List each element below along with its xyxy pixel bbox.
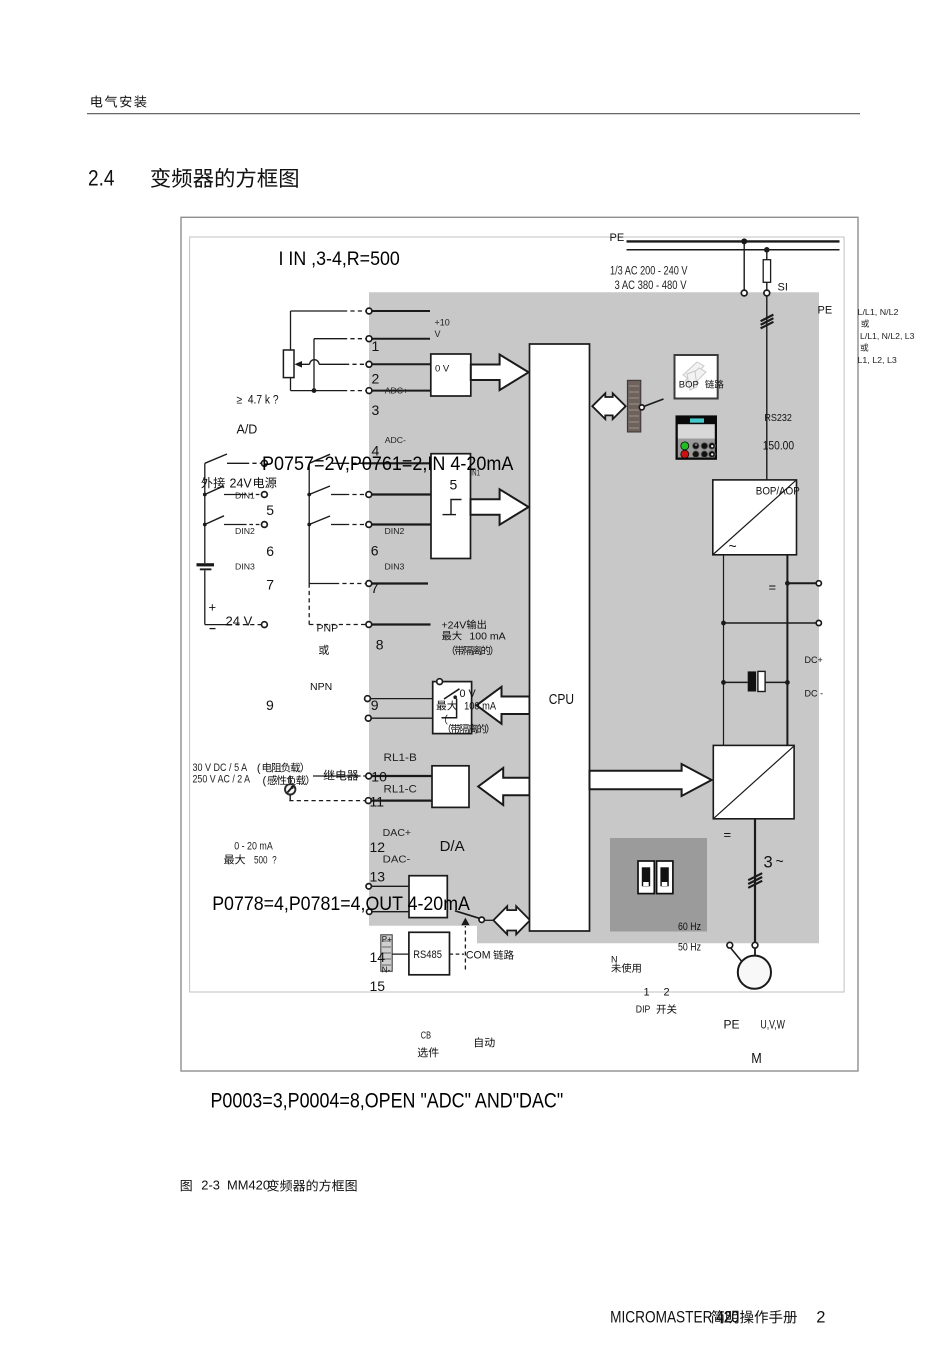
svg-text:SI: SI xyxy=(778,282,788,294)
wire terminal 13 to DAC block xyxy=(372,911,409,913)
text or xyxy=(861,320,869,328)
svg-text:3: 3 xyxy=(372,402,380,418)
svg-text:DIN3: DIN3 xyxy=(385,561,405,571)
svg-text:9: 9 xyxy=(371,697,379,713)
schmitt trigger symbol in DIN block xyxy=(443,514,457,516)
svg-text:CB: CB xyxy=(421,1030,431,1042)
DIP switch 2 xyxy=(657,861,673,894)
svg-text:D/A: D/A xyxy=(440,838,465,855)
svg-text:=: = xyxy=(724,827,732,842)
dashed arrow from COM to switch xyxy=(464,926,466,970)
terminal 5 circle xyxy=(366,492,372,498)
terminal 8 circle xyxy=(366,622,372,628)
svg-text:7: 7 xyxy=(371,580,379,596)
wire terminal 12 to DAC block xyxy=(371,885,409,887)
svg-text:420: 420 xyxy=(717,1309,739,1327)
terminal circle COM link xyxy=(479,917,484,922)
svg-text:DAC+: DAC+ xyxy=(383,827,411,839)
svg-text:M: M xyxy=(751,1050,762,1067)
svg-text:24 V: 24 V xyxy=(226,613,253,628)
text 继电器 relay xyxy=(324,770,359,781)
svg-text:2: 2 xyxy=(816,1309,825,1327)
svg-text:DC+: DC+ xyxy=(805,655,823,665)
page header text 电气安装 xyxy=(91,95,146,107)
svg-text:1: 1 xyxy=(644,987,650,999)
svg-text:2: 2 xyxy=(372,371,380,387)
text max 100 mA xyxy=(442,631,462,640)
DIN block xyxy=(431,454,471,559)
DIP switch 1 xyxy=(638,861,654,894)
svg-text:P0757=2V,P0761=2,IN 4-20mA: P0757=2V,P0761=2,IN 4-20mA xyxy=(262,454,514,475)
wire load to terminal 11 dashed xyxy=(289,800,365,802)
text 未使用 xyxy=(611,963,640,973)
svg-text:V: V xyxy=(435,329,441,339)
svg-text:50 Hz: 50 Hz xyxy=(678,942,701,954)
RS485 P+ N- connector xyxy=(381,935,392,972)
header rule xyxy=(87,113,860,115)
wire terminal 9b to block xyxy=(371,717,433,719)
svg-text:DIN3: DIN3 xyxy=(235,561,255,571)
wire DIN1 into block xyxy=(362,462,431,464)
motor M1 xyxy=(738,956,771,989)
RS485 block xyxy=(409,932,450,975)
svg-text:1: 1 xyxy=(372,338,380,354)
wire +10V terminal 1 row xyxy=(291,310,344,312)
svg-text:ADC-: ADC- xyxy=(385,435,406,445)
svg-text:+: + xyxy=(209,600,217,615)
wire PE bus line 2 xyxy=(627,249,840,251)
svg-text:5: 5 xyxy=(266,502,274,518)
svg-text:0 V: 0 V xyxy=(435,364,450,375)
svg-text:150.00: 150.00 xyxy=(763,438,795,452)
wire DIN3 row xyxy=(309,583,335,585)
svg-text:≥ 4.7 k ?: ≥ 4.7 k ? xyxy=(237,394,279,406)
block arrow CPU to inverter xyxy=(590,764,712,796)
DAC block xyxy=(409,876,447,918)
svg-text:30 V DC / 5 A: 30 V DC / 5 A xyxy=(193,762,248,774)
wire terminal 11 to relay block xyxy=(371,799,432,801)
wire terminal 6 to DIN block xyxy=(372,523,431,525)
terminal 9 circle a xyxy=(365,696,371,702)
double arrow CPU BOP link xyxy=(592,393,625,419)
text 自动 xyxy=(475,1037,495,1047)
text 外接 24V电源 xyxy=(201,477,224,488)
wire terminal 9a to block xyxy=(370,698,433,700)
BOP link box xyxy=(675,355,718,399)
wire PE drop to terminal xyxy=(743,241,745,290)
svg-text:CPU: CPU xyxy=(549,692,574,708)
svg-text:P0778=4,P0781=4,OUT 4-20mA: P0778=4,P0781=4,OUT 4-20mA xyxy=(212,893,470,915)
dashed wire RS485 to COM xyxy=(450,953,465,955)
junction on PE bus xyxy=(741,238,747,244)
text isolated xyxy=(453,645,493,655)
svg-text:PE: PE xyxy=(818,305,833,317)
svg-text:~: ~ xyxy=(776,853,784,869)
terminal 6 circle xyxy=(366,522,372,528)
switch S3 DIN2 left xyxy=(203,523,207,527)
svg-text:1/3 AC 200 - 240 V: 1/3 AC 200 - 240 V xyxy=(610,266,688,278)
svg-text:100 mA: 100 mA xyxy=(462,701,497,713)
svg-text:RS485: RS485 xyxy=(413,949,442,961)
option connector strip xyxy=(627,380,640,432)
wire inverter to motor with cable marks xyxy=(754,819,756,943)
terminal circle DIN2 left xyxy=(262,522,268,528)
caption 图 2-3 xyxy=(181,1180,192,1191)
terminal 1 circle xyxy=(366,308,372,314)
svg-text:2: 2 xyxy=(664,987,670,999)
switch S4 DIN1 row xyxy=(309,454,330,463)
wire pot top feed xyxy=(290,311,292,350)
svg-text:DAC-: DAC- xyxy=(383,854,411,866)
svg-text:60 Hz: 60 Hz xyxy=(678,921,701,933)
svg-text:P+: P+ xyxy=(382,935,392,944)
switch S1 top row xyxy=(205,454,227,463)
svg-text:PE: PE xyxy=(610,232,625,244)
wire terminal 10 to relay block xyxy=(371,775,432,777)
svg-text:9: 9 xyxy=(266,697,274,713)
svg-text:6: 6 xyxy=(266,543,274,559)
svg-text:N-: N- xyxy=(382,966,391,975)
svg-text:0 V: 0 V xyxy=(460,688,477,700)
terminal circle on top of 0V block xyxy=(437,679,443,685)
junction at pot bottom wire xyxy=(312,388,317,393)
svg-text:BOP: BOP xyxy=(679,380,699,391)
terminal PE motor circle xyxy=(727,942,733,948)
terminal 11 circle xyxy=(365,798,371,804)
BOP connector sketch icon xyxy=(683,362,706,390)
block arrow ADC to CPU xyxy=(471,355,529,391)
junction DC- tap xyxy=(721,621,726,626)
switch S6 DIN row3 xyxy=(307,523,311,527)
svg-text:NPN: NPN xyxy=(310,681,332,693)
relay block RL1 xyxy=(432,766,469,808)
external supply bus wire xyxy=(204,463,206,563)
svg-text:RL1-C: RL1-C xyxy=(384,783,417,795)
text max 500 ohm xyxy=(224,854,245,864)
wire terminal 8 into block xyxy=(372,623,431,625)
block arrow CPU to relay xyxy=(478,768,529,805)
terminal 4 circle xyxy=(366,388,372,394)
text 选件 xyxy=(418,1047,439,1057)
svg-text:250 V AC / 2 A: 250 V AC / 2 A xyxy=(193,773,251,785)
terminal motor circle xyxy=(752,942,758,948)
svg-text:24V: 24V xyxy=(230,476,253,490)
terminal L circle xyxy=(764,290,770,296)
text 链路 at COM xyxy=(493,950,513,960)
text - polarity xyxy=(210,628,216,630)
svg-text:DIN2: DIN2 xyxy=(235,526,255,536)
terminal circle top left row xyxy=(262,460,268,466)
wire relay RL1-B row xyxy=(313,775,357,777)
svg-text:PNP: PNP xyxy=(317,622,339,634)
wire DC+ tap xyxy=(787,582,816,584)
wire DC right rail xyxy=(786,555,788,746)
DC link capacitor C1 xyxy=(724,681,748,683)
double arrow CPU COM link xyxy=(493,906,530,934)
isolated 0V output block xyxy=(433,682,472,734)
svg-text:P0003=3,P0004=8,OPEN "ADC" AND: P0003=3,P0004=8,OPEN "ADC" AND"DAC" xyxy=(211,1090,564,1113)
wire battery to 24V terminal xyxy=(204,570,206,624)
text or 2 xyxy=(861,344,869,352)
switch inside 0V block xyxy=(444,689,460,699)
rectifier BOP/AOP block xyxy=(713,480,797,555)
operator panel BOP xyxy=(676,415,718,459)
wire mains into drive with cable marks xyxy=(766,296,768,480)
svg-text:+24V: +24V xyxy=(442,619,467,631)
svg-text:7: 7 xyxy=(266,577,274,593)
wire PE to motor frame xyxy=(731,948,742,962)
text 或 PNP/NPN xyxy=(319,645,329,655)
wire circle to double arrow xyxy=(484,919,493,921)
junction DC+ tap xyxy=(785,581,790,586)
terminal 12 circle xyxy=(366,884,371,889)
terminal DC- circle xyxy=(816,620,821,625)
svg-text:15: 15 xyxy=(370,978,386,994)
text max 100 mA isolated xyxy=(437,700,458,710)
switch S5 DIN row2 xyxy=(307,493,311,497)
wire terminal 5 to DIN block xyxy=(372,493,431,495)
svg-text:L1, L2, L3: L1, L2, L3 xyxy=(858,355,897,365)
svg-text:DIP: DIP xyxy=(636,1004,651,1016)
switch S2 DIN1 left xyxy=(203,493,207,497)
svg-text:3 AC 380 - 480 V: 3 AC 380 - 480 V xyxy=(615,280,687,292)
svg-text:11: 11 xyxy=(370,794,385,810)
junction on L bus xyxy=(764,247,770,253)
svg-text:L/L1, N/L2, L3: L/L1, N/L2, L3 xyxy=(860,331,915,341)
ADC block 0 V xyxy=(431,354,471,396)
terminal 7 circle xyxy=(366,581,372,587)
svg-text:+10: +10 xyxy=(435,318,450,328)
svg-text:ADC+: ADC+ xyxy=(385,385,408,395)
battery B1 24V xyxy=(197,563,215,566)
svg-text:DC -: DC - xyxy=(805,688,824,698)
svg-text:6: 6 xyxy=(371,543,379,559)
figure inner frame xyxy=(190,237,845,992)
svg-text:13: 13 xyxy=(370,869,386,885)
wire terminal 3 to ADC xyxy=(372,363,431,365)
terminal 13 circle xyxy=(367,909,372,914)
DIP switch dark panel xyxy=(610,838,707,932)
wire connector to RS485 block xyxy=(392,953,409,955)
svg-text:BOP/AOP: BOP/AOP xyxy=(756,485,800,497)
block arrow DIN to CPU xyxy=(471,489,529,525)
terminal DC+ circle xyxy=(816,581,821,586)
wire fuse to terminal xyxy=(766,282,768,290)
inverter main gray block xyxy=(369,292,819,943)
terminal PE circle xyxy=(741,290,747,296)
text 链路 BOP xyxy=(705,380,723,389)
svg-text:100 mA: 100 mA xyxy=(467,631,506,643)
caption 变频器的方框图 xyxy=(267,1179,356,1191)
terminal 9 circle b xyxy=(365,715,371,721)
svg-text:DIN2: DIN2 xyxy=(385,526,405,536)
svg-text:5: 5 xyxy=(450,476,458,492)
pot wiper arrow with crossover hump xyxy=(299,363,345,365)
terminal circle DIN1 left xyxy=(262,492,268,498)
svg-text:14: 14 xyxy=(370,949,386,965)
svg-text:L/L1, N/L2: L/L1, N/L2 xyxy=(858,307,899,317)
wire terminal 7 into block xyxy=(372,582,428,584)
svg-text:2.4: 2.4 xyxy=(88,166,115,191)
svg-text:A/D: A/D xyxy=(237,423,258,437)
fuse SI xyxy=(763,260,770,283)
footer 简明操作手册 xyxy=(711,1310,797,1323)
svg-text:=: = xyxy=(769,579,777,594)
figure outer frame xyxy=(181,217,858,1071)
block arrow CPU to 0V block xyxy=(477,687,530,724)
switch BOP link xyxy=(639,405,644,410)
svg-text:~: ~ xyxy=(729,538,737,554)
wire PE bus line 1 xyxy=(627,240,840,242)
svg-text:500 ?: 500 ? xyxy=(250,855,277,867)
svg-text:I IN ,3-4,R=500: I IN ,3-4,R=500 xyxy=(279,249,400,270)
load lamp symbol xyxy=(289,776,291,784)
switch COM link xyxy=(455,911,479,918)
terminal circle 24V xyxy=(262,622,268,628)
svg-text:U,V,W: U,V,W xyxy=(760,1020,785,1032)
inverter block xyxy=(713,745,794,818)
svg-text:(: ( xyxy=(263,775,267,787)
svg-text:8: 8 xyxy=(376,637,384,653)
svg-text:DIN1: DIN1 xyxy=(235,491,255,501)
wire DC left rail xyxy=(723,555,725,746)
wire 0V terminal 2 row xyxy=(314,338,343,340)
wire L drop to fuse xyxy=(766,250,768,260)
terminal 2 circle xyxy=(366,336,372,342)
CPU block xyxy=(530,344,590,931)
svg-text:RS232: RS232 xyxy=(764,412,792,424)
svg-text:RL1-B: RL1-B xyxy=(384,752,417,764)
wire DC- tap xyxy=(724,622,817,624)
wire pot bottom xyxy=(290,378,292,391)
svg-text:3: 3 xyxy=(764,854,773,872)
svg-text:COM: COM xyxy=(466,949,491,961)
wire terminal2 to pot-bottom vertical xyxy=(313,339,315,391)
terminal 3 circle xyxy=(366,361,372,367)
svg-text:(: ( xyxy=(257,763,261,775)
internal supply bus wire middle xyxy=(308,463,310,583)
wire +24V output row dashed xyxy=(309,624,365,626)
svg-text:2-3 MM420: 2-3 MM420 xyxy=(201,1178,270,1193)
terminal 10 circle xyxy=(366,773,372,779)
svg-text:0 - 20 mA: 0 - 20 mA xyxy=(234,841,273,853)
svg-text:N: N xyxy=(611,955,618,965)
svg-text:10: 10 xyxy=(371,769,387,785)
potentiometer R1 xyxy=(283,350,294,378)
section heading 变频器的方框图 xyxy=(151,168,298,188)
svg-text:PE: PE xyxy=(724,1018,740,1032)
